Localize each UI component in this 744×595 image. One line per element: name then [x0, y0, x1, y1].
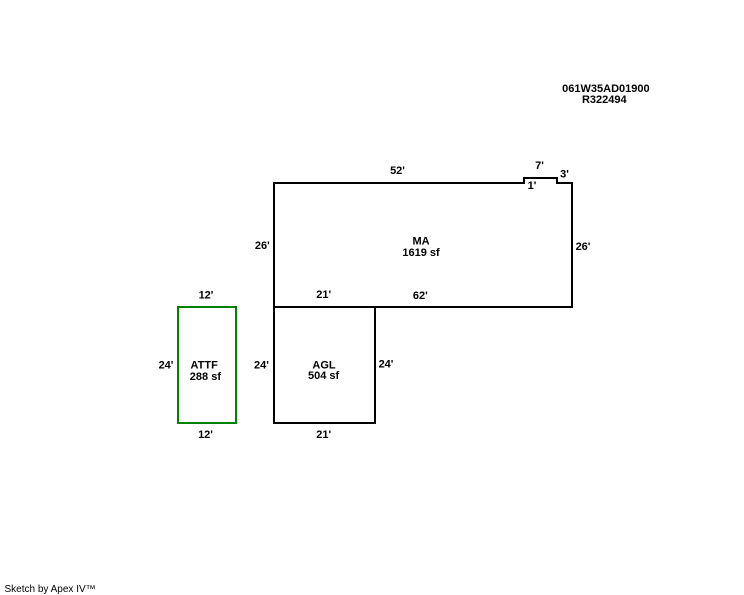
- svg-text:R322494: R322494: [582, 94, 628, 106]
- svg-text:1': 1': [528, 180, 537, 192]
- svg-text:MA: MA: [412, 236, 429, 248]
- svg-text:26': 26': [255, 240, 270, 252]
- svg-text:24': 24': [254, 360, 269, 372]
- svg-text:12': 12': [199, 290, 214, 302]
- svg-text:52': 52': [390, 165, 405, 177]
- svg-text:26': 26': [576, 241, 591, 253]
- svg-text:ATTF: ATTF: [191, 360, 219, 372]
- svg-text:21': 21': [316, 289, 331, 301]
- area MA outline (main area with 1' x 7' notch at top right): [274, 178, 572, 307]
- svg-text:21': 21': [316, 429, 331, 441]
- svg-text:24': 24': [159, 360, 174, 372]
- svg-text:24': 24': [379, 359, 394, 371]
- area ATTF outline (attic, green): [178, 307, 236, 423]
- svg-text:504 sf: 504 sf: [308, 370, 340, 382]
- svg-text:288 sf: 288 sf: [190, 371, 222, 383]
- svg-text:7': 7': [535, 160, 544, 172]
- svg-text:3': 3': [560, 169, 569, 181]
- svg-text:12': 12': [198, 429, 213, 441]
- svg-text:62': 62': [413, 290, 428, 302]
- area AGL outline (garage): [274, 307, 375, 423]
- svg-text:1619 sf: 1619 sf: [402, 247, 440, 259]
- svg-text:Sketch by Apex IV™: Sketch by Apex IV™: [5, 584, 96, 595]
